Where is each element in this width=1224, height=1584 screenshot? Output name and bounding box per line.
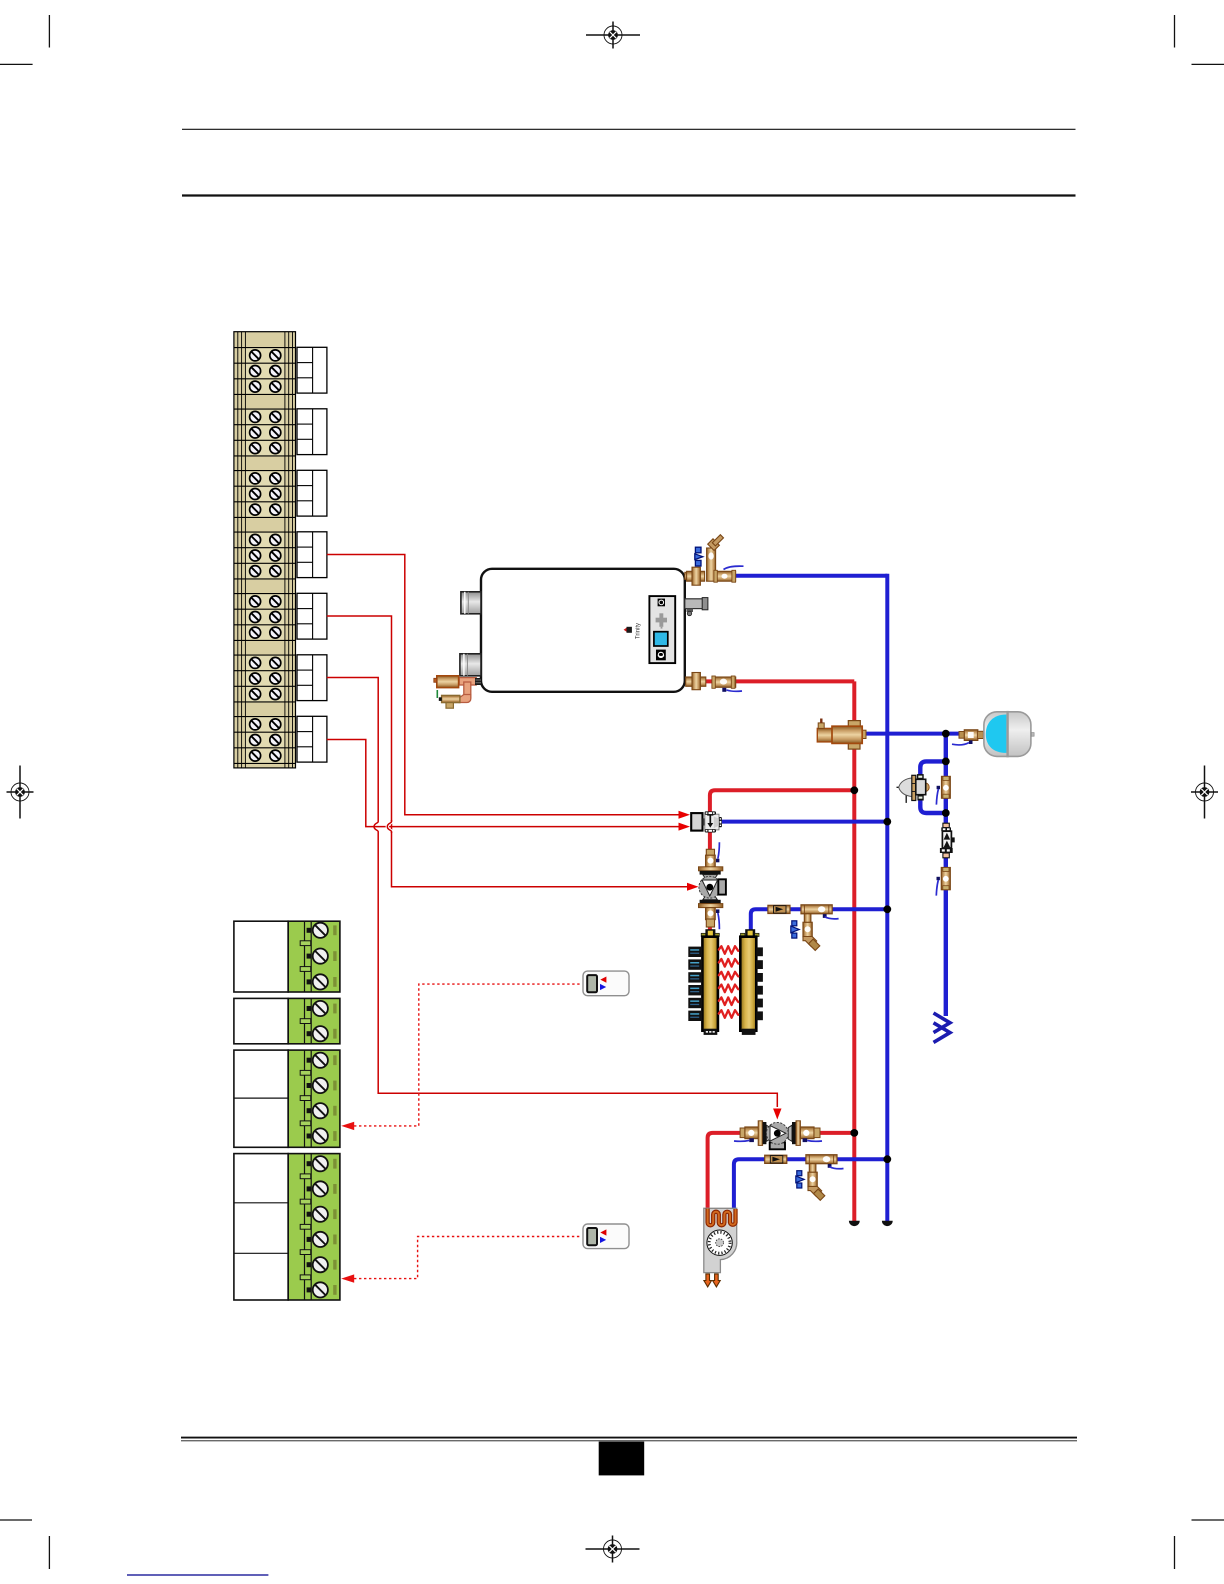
wire circulator P1 (J5) (327, 616, 699, 891)
fan coil airflow arrows (704, 1274, 720, 1287)
pipe fan coil return (734, 1159, 887, 1209)
red supply main riser (852, 681, 856, 1221)
crop mark bottom-right (1175, 1520, 1224, 1569)
boiler control panel (649, 596, 675, 663)
thermostat terminal block TS1 (234, 921, 340, 992)
pipe break symbol (cold feed) (934, 1013, 951, 1042)
page number box (599, 1442, 645, 1476)
junction nodes (850, 730, 949, 1163)
radiant tubing coils (719, 946, 738, 1018)
footer rule thick (181, 1437, 1077, 1439)
registration mark bottom (586, 1536, 640, 1563)
circulator pump P1 (699, 867, 726, 908)
connector block J7 (297, 716, 327, 762)
footer rule thin (181, 1440, 1077, 1442)
registration mark left (7, 766, 34, 819)
boiler temperature sensor (685, 598, 708, 616)
crop mark bottom-left (0, 1520, 49, 1569)
purge station fan coil zone (765, 1155, 844, 1201)
fill valve upper (936, 776, 950, 804)
circulator pump P2 (734, 1121, 822, 1150)
boiler relief valve assembly (434, 676, 481, 708)
boiler return piping with fill valve (685, 535, 744, 585)
wire circulator P2 (J6) (327, 678, 782, 1120)
registration mark right (1191, 766, 1218, 819)
cold water fill riser (944, 734, 948, 1016)
connector block J4 (297, 532, 327, 578)
boiler vent pipe upper (461, 592, 481, 614)
manifold loop connectors right (756, 947, 763, 1020)
wire zone valve power (J4 to V1 top port) (327, 555, 690, 819)
thermostat terminal block TS3 (234, 1050, 340, 1147)
red supply branch to zone valve (710, 790, 854, 930)
thermostat T2 (583, 1224, 629, 1249)
backflow preventer / PRV (897, 774, 930, 803)
wire jog J5 over J7 (387, 822, 391, 832)
header rule thin (182, 128, 1076, 130)
air separator (817, 719, 866, 750)
terminal strip TB1 (234, 332, 296, 768)
purge station radiant zone (768, 905, 839, 951)
manifold loop connectors left (688, 947, 702, 1021)
fill check valve (940, 823, 955, 858)
thermostat terminal block TS2 (234, 998, 340, 1043)
bottom partial blue rule (127, 1574, 268, 1576)
wire zone valve (J7 to V1 side port) (327, 740, 690, 831)
fill valve lower (936, 868, 950, 896)
pipe zone valve return (722, 820, 888, 824)
crop mark top-right (1175, 15, 1224, 64)
connector block J5 (297, 593, 327, 639)
thermostat T1 (583, 971, 629, 996)
svg-text:Trinity: Trinity (636, 623, 642, 639)
dashed thermostat wire T1 to TS3 (341, 984, 582, 1130)
pipe manifold return (751, 909, 888, 931)
crop mark top-left (0, 15, 49, 64)
red supply from boiler (685, 679, 855, 683)
blue return main riser (885, 574, 889, 1221)
pipe air separator to expansion tank (863, 732, 961, 736)
boiler B1 (481, 569, 685, 692)
red main end cap (849, 1221, 860, 1226)
connector block J2 (297, 409, 327, 455)
boiler supply piping (686, 673, 742, 692)
radiant loop isolation valve lower (706, 908, 720, 930)
boiler Trinity logo (624, 623, 642, 639)
blue main end cap (882, 1221, 893, 1226)
connector block J3 (297, 470, 327, 516)
expansion tank isolation valve (952, 730, 983, 745)
radiant manifold return bar (740, 929, 759, 1035)
dashed thermostat wire T2 to TS4 (341, 1237, 582, 1283)
fan coil / air handler (704, 1208, 737, 1272)
header rule thick (182, 194, 1076, 196)
registration mark top (586, 22, 640, 49)
zone valve V1 with actuator (691, 811, 722, 832)
boiler vent pipe lower (460, 654, 481, 676)
thermostat terminal block TS4 (234, 1154, 340, 1300)
red supply branch to fan coil (708, 1133, 855, 1210)
radiant loop isolation valve upper (706, 842, 720, 867)
pipe boiler return to blue main (736, 574, 888, 578)
connector block J1 (297, 347, 327, 393)
radiant manifold supply bar (701, 929, 719, 1035)
fill bypass loop (920, 761, 946, 813)
connector block J6 (297, 655, 327, 701)
expansion tank (984, 711, 1034, 757)
